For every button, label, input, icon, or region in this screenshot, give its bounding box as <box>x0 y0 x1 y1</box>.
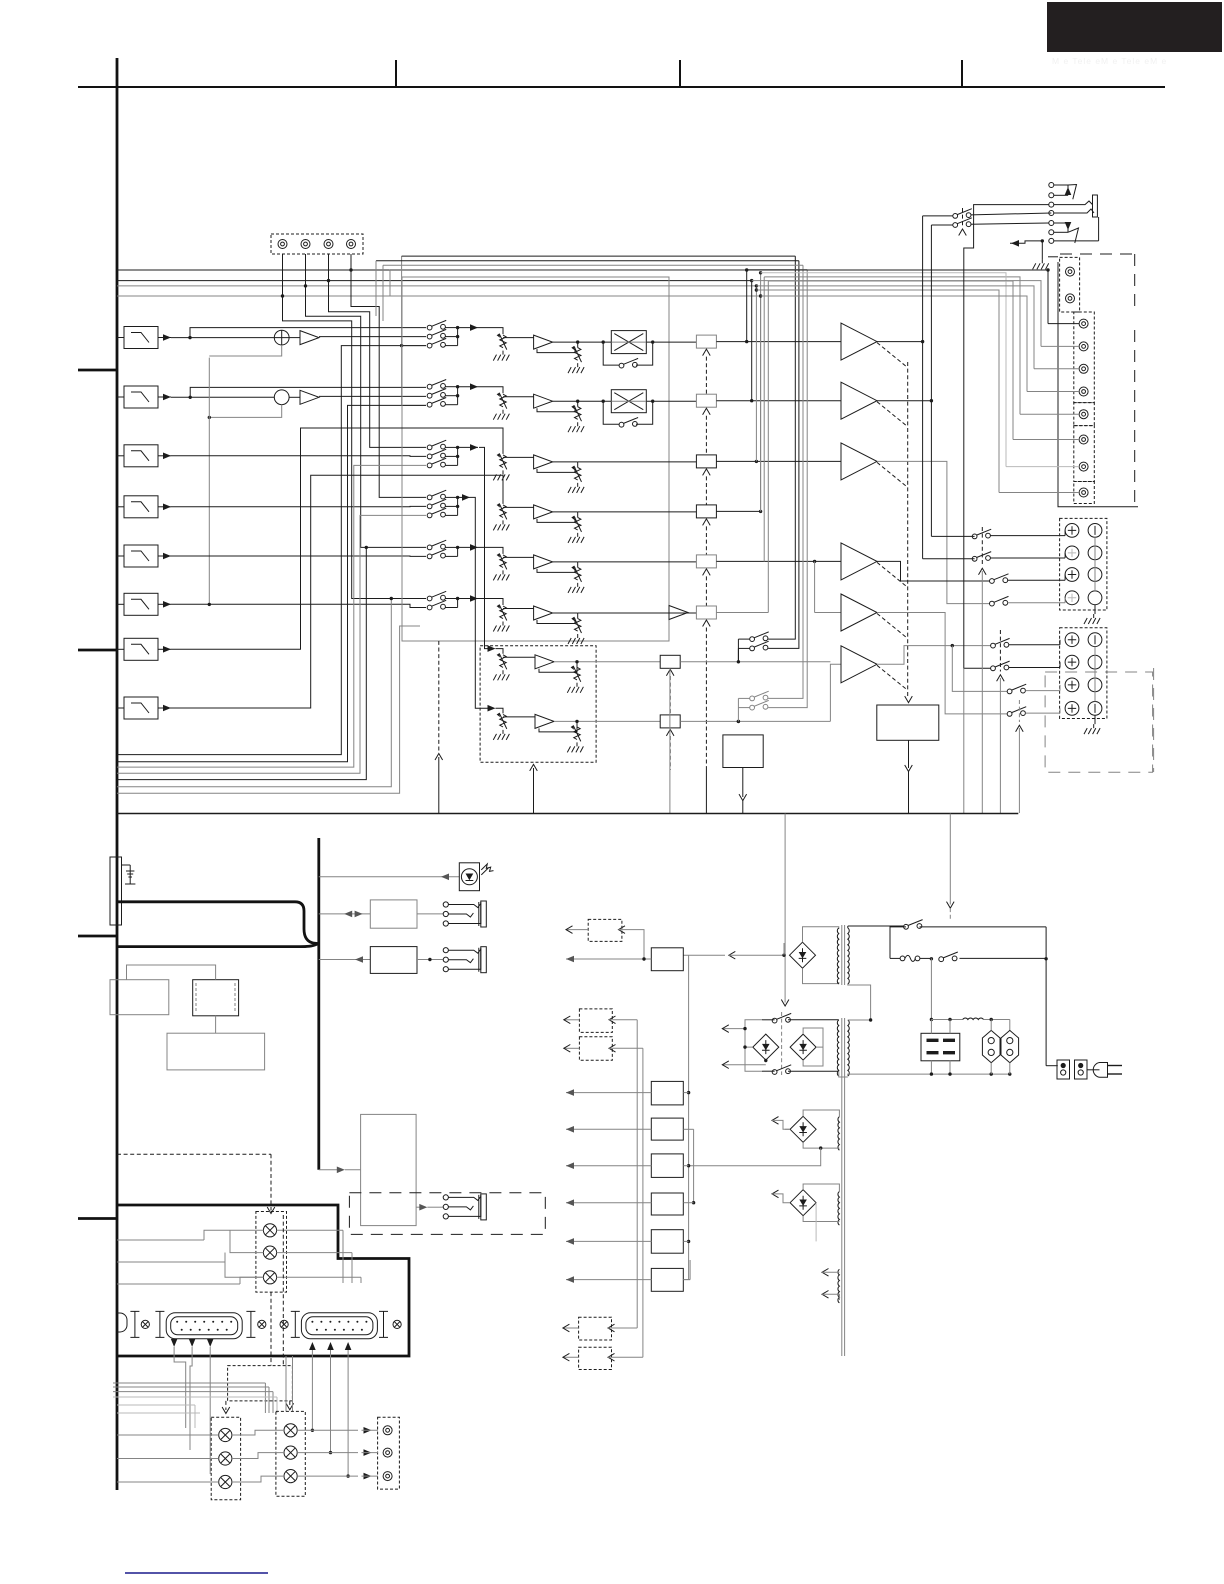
amp PA1 output wire <box>877 340 924 343</box>
jack J3 drop + staircase to SW3 <box>327 254 426 447</box>
volume op-amp U5 <box>534 555 553 569</box>
SB op-amp UB2 <box>535 714 554 728</box>
AC connector 1 (hex) <box>982 1030 1000 1062</box>
front sub box A <box>110 980 169 1015</box>
input bus drop 3 tail <box>755 286 757 462</box>
lamp feed wires from left <box>117 1230 263 1284</box>
AC plug cable <box>1087 1069 1100 1071</box>
SB op-amp 1 output <box>554 660 660 663</box>
op-amp U3 output wire <box>553 461 697 463</box>
psu bottom rail <box>848 1072 1012 1075</box>
op-amp U4 output wire <box>553 511 697 513</box>
top ruler line <box>78 86 1165 88</box>
input bus drop 4 tail <box>760 273 762 512</box>
bridge1 to transformer1 <box>803 927 839 984</box>
RCA input jack J2 <box>301 240 310 249</box>
psu bus vertical vA <box>963 668 965 813</box>
transformer T3 <box>838 1117 839 1151</box>
headphone switch dashed ctl <box>959 208 967 236</box>
preout jack Q2 <box>1079 342 1088 351</box>
transformer T1 primary <box>848 928 849 984</box>
speaker B row4 plus terminal <box>1065 702 1079 716</box>
filter F3 output arrow <box>158 453 171 460</box>
T3 top arrow <box>772 1117 790 1130</box>
aux3 input <box>609 1045 643 1053</box>
ctl riser to SB box <box>530 764 538 813</box>
speaker A row1 plus terminal <box>1065 524 1079 538</box>
psu drop switch line <box>947 814 955 922</box>
SB relay A drop <box>669 668 671 813</box>
relay control arrow 1 <box>703 349 711 356</box>
amp PA6 bridge dashed link <box>877 665 908 690</box>
left bus line b3 <box>117 465 426 767</box>
display unit box <box>370 900 417 928</box>
SB op-amp 2 output <box>554 720 660 723</box>
selector SW5 output arrow <box>458 544 478 551</box>
T2 relay switch bottom <box>762 1065 839 1076</box>
zone bus top line 3 <box>383 264 803 266</box>
hp ground wire <box>1033 241 1049 269</box>
hp tip lever 2 <box>1068 228 1079 243</box>
lamp B1 <box>284 1424 297 1437</box>
filter F4 output arrow <box>158 504 171 511</box>
crossfade matrix X2 <box>611 390 646 413</box>
low-pass filter F2 <box>117 386 158 408</box>
preout jack P1 <box>1066 267 1075 276</box>
transformer T4 <box>838 1192 839 1226</box>
preout jack group 2 (dashed) <box>1074 312 1095 403</box>
lamp ctl dashed tail <box>270 1292 272 1366</box>
hp contact4 lever <box>1054 209 1094 213</box>
aux feed vertical 2 <box>642 1048 644 1357</box>
regulator REG1 output <box>566 956 651 963</box>
wire F1 to S1 <box>171 336 274 339</box>
input selector switch group SW3 <box>427 440 446 468</box>
low-pass filter F6 <box>117 593 158 615</box>
T2 secondary bottom tail <box>839 1076 848 1077</box>
power amplifier PA6 <box>841 646 877 683</box>
regulator box REG4 <box>651 1154 683 1178</box>
feedback resistor R4 <box>568 512 584 543</box>
panel screw 1 <box>141 1320 149 1328</box>
op-amp U6 feedback loop <box>537 619 575 624</box>
hp sw2 wire to contact5 <box>971 223 1049 224</box>
panel lamp L1 <box>263 1224 276 1237</box>
bridge rectifier D2 <box>753 1034 779 1060</box>
selector SW6 output arrow <box>458 595 478 602</box>
selector SW3 output arrow <box>458 444 478 451</box>
front thick wire upper <box>117 902 319 944</box>
title block (solid black) <box>1047 2 1222 52</box>
preout bus line e <box>750 279 1041 347</box>
selector SW2 common junctions <box>445 385 459 405</box>
panel out jack 2 feed <box>297 1449 378 1456</box>
aux2 input <box>609 1016 637 1024</box>
surround-back buffer box (dashed) <box>480 646 596 762</box>
lamp top to B links <box>286 1356 293 1411</box>
panel screw 2 <box>258 1320 266 1328</box>
input selector switch group SW5 <box>427 540 446 559</box>
panel out jack 1 feed <box>297 1427 378 1434</box>
wire F6 to selector <box>171 604 426 607</box>
lamp B3 <box>284 1470 297 1483</box>
row5 wire to level control <box>478 547 503 554</box>
panel lamp L2 <box>263 1246 276 1259</box>
regulator REG3 output <box>566 1126 651 1133</box>
power sw drop <box>890 927 906 959</box>
transformer T1 secondary <box>837 928 838 984</box>
mute relay RL6 <box>696 606 716 619</box>
amp PA5 feed tap <box>815 561 841 612</box>
gray bus under panel <box>113 1383 277 1413</box>
ctl box out arrows <box>222 1401 293 1414</box>
lamp wires top <box>225 1230 263 1277</box>
T3 to rail <box>689 1148 821 1166</box>
bridge D3 frame <box>803 1028 823 1066</box>
footer underline (blue) <box>125 1572 268 1574</box>
mute relay RL4 <box>696 505 716 518</box>
speaker B ctl2 dashed <box>1016 700 1024 813</box>
speaker B row2 switch <box>991 661 1060 671</box>
relay control arrow 2 <box>703 408 711 415</box>
row4 output wire (pre-out only) <box>716 510 762 513</box>
amp bridge dashed tie bus <box>907 362 909 698</box>
panel aux dashed vertical <box>282 1215 284 1366</box>
op-amp U5 output wire <box>553 561 697 563</box>
power switch S2 <box>920 952 1046 962</box>
panel bracket 1 <box>130 1311 139 1337</box>
panel bracket 4 <box>291 1311 300 1337</box>
headphone jack contact 6 <box>1049 230 1054 235</box>
ruler tick 3 <box>961 60 963 87</box>
hp contact3 lever <box>1054 201 1093 205</box>
SB mute relay RLB2 <box>660 715 680 728</box>
row4 riser to top bus <box>760 296 762 511</box>
input bus wire 3 <box>117 285 756 287</box>
antenna element symbol <box>122 865 136 884</box>
relay control dashed bus seg 2 <box>705 416 707 455</box>
front box 3 input <box>319 956 371 963</box>
bypass switch SWX1 <box>619 358 638 368</box>
relay control arrow 3 <box>703 469 711 476</box>
SB wire to op-amp 1 <box>503 656 535 658</box>
front panel outline <box>117 1205 409 1356</box>
selector SW5 common junctions <box>445 546 459 557</box>
amp PA2 output wire <box>877 399 933 402</box>
bridge D2 frame <box>743 1020 762 1071</box>
RCA input jack J3 <box>324 240 333 249</box>
raw DC rail <box>687 955 690 1280</box>
F7 riser feed to row3 level control <box>171 428 503 649</box>
input bus drop 2 tail <box>751 281 753 401</box>
preout jack stub q2 <box>1041 345 1079 347</box>
row2 wire to level control <box>478 387 503 394</box>
front ctl dashed to panel lamps <box>117 1154 275 1213</box>
preout bus line g <box>755 284 1034 369</box>
panel screw 4 <box>393 1320 401 1328</box>
front jack 2 <box>443 947 486 973</box>
speaker A row1 switch <box>931 529 1065 539</box>
speaker A row2 plus terminal <box>1065 546 1079 560</box>
speaker B row2 feed <box>964 302 991 668</box>
bridge bus arrow into protector <box>905 696 913 703</box>
SB relay B output wire <box>680 720 830 723</box>
headphone feed switch 1 <box>923 209 972 559</box>
row2 direct tap riser <box>190 387 426 397</box>
level control VR3 ground <box>493 470 509 480</box>
speaker B row3 feed <box>952 646 1009 692</box>
relay control bus tail <box>705 628 707 814</box>
preout jack Q4 <box>1079 387 1088 396</box>
protector box <box>877 705 939 740</box>
row6 wire to level control <box>478 599 503 606</box>
jack J2 drop + staircase to SW5 <box>304 254 426 547</box>
preout bus line c <box>759 271 1006 467</box>
amp PA2 bridge dashed link <box>877 402 908 427</box>
row5 output wire to amp PA4 <box>716 560 841 563</box>
bypass rail to output <box>636 342 653 365</box>
amp PA3 bridge dashed link <box>877 462 908 487</box>
mute relay RL1 <box>696 335 716 348</box>
psu dashed aux box 2 <box>579 1009 612 1033</box>
wire F5 to selector <box>171 555 426 557</box>
front long-dash jack box <box>349 1193 545 1235</box>
relay control dashed bus seg 1 <box>705 357 707 395</box>
SB out pair2 risers <box>768 265 807 707</box>
amp PA6 output wire <box>877 644 991 664</box>
summing node S1 (circle-cross) <box>274 330 289 345</box>
feedback resistor R2 <box>568 401 584 432</box>
preout jack group 1 (dashed) <box>1060 257 1080 312</box>
speaker B row4 return terminal <box>1088 702 1102 716</box>
selector SW1 common junctions <box>445 326 459 346</box>
low-pass filter F5 <box>117 545 158 567</box>
preout jack stub q8 <box>999 492 1079 494</box>
wire F2 to S2 <box>171 396 274 399</box>
speaker A row4 switch <box>990 596 1066 606</box>
power amplifier PA1 <box>841 323 877 360</box>
low-pass filter F4 <box>117 496 158 518</box>
AC plug <box>1093 1063 1122 1078</box>
headphone jack contact 1 <box>1049 183 1054 188</box>
panel bracket 2 <box>155 1311 164 1337</box>
D-sub connector CN1 <box>166 1313 242 1339</box>
crossfade X2 bypass rail <box>603 401 620 424</box>
speaker A row4 plus terminal <box>1065 591 1079 605</box>
panel screw 3 <box>280 1320 288 1328</box>
hp tip lever 1 <box>1068 185 1077 200</box>
bridge rectifier D3 <box>790 1034 816 1060</box>
CN2 up arrows <box>309 1342 351 1356</box>
lamp A feeds <box>117 1435 219 1482</box>
speaker B row1 return terminal <box>1088 633 1102 647</box>
level control VR1 <box>497 334 507 350</box>
feedback resistor R5 <box>568 562 584 593</box>
hp zone arrow wire <box>1010 240 1042 247</box>
row3 output wire to amp <box>716 460 841 463</box>
wire A1 out to selector <box>319 336 426 338</box>
psu dashed aux box 1 <box>588 919 622 941</box>
ctl riser dashed to DSP <box>435 641 443 814</box>
svg-text:M e Tele eM e Tele eM e: M e Tele eM e Tele eM e <box>1052 56 1167 66</box>
panel out jack 3 feed <box>297 1473 378 1480</box>
psu down arrow main <box>781 940 789 1006</box>
psu left out 2 <box>722 1059 767 1069</box>
IR receiver box <box>459 863 479 891</box>
SB feedback resistor 2 <box>567 721 583 752</box>
speaker A row3 switch <box>990 574 1066 584</box>
panel lamp group top (dashed) <box>256 1212 287 1293</box>
selector SW3 common junctions <box>445 446 459 466</box>
row3 selected wire to SB buffer A <box>479 447 488 648</box>
S1 lower input wire <box>209 345 281 356</box>
row2 output wire to amp <box>716 399 841 402</box>
input selector switch group SW1 <box>427 320 446 348</box>
headphone jack contact 4 <box>1049 211 1054 216</box>
fuse drop <box>930 958 932 1019</box>
preout jack Q6 <box>1079 435 1088 444</box>
headphone jack contact 2 <box>1049 193 1054 198</box>
front A-B link wire <box>127 965 216 980</box>
bridge rectifier D4 <box>790 1116 816 1142</box>
aux1 output arrow <box>566 926 588 934</box>
transformer T2 secondary <box>837 1020 838 1076</box>
row5 riser to top bus <box>763 277 765 562</box>
level control VR1 ground <box>493 351 509 361</box>
CN2 wires below <box>311 1356 350 1478</box>
front sub box B (MCU) <box>193 980 239 1016</box>
crossfade matrix X1 <box>611 331 646 354</box>
selector SW4 common junctions <box>445 496 459 516</box>
SB op-amp 1 feedback loop <box>539 667 577 672</box>
op-amp U3 feedback loop <box>537 467 575 472</box>
level control VR2 <box>497 393 507 409</box>
AC plug connector pair <box>1057 1060 1087 1079</box>
T1 primary top wire <box>848 926 906 928</box>
aux3 output arrow <box>564 1045 580 1053</box>
preout jack Q1 <box>1079 319 1088 328</box>
rear panel outline dash right <box>1134 254 1136 507</box>
panel out jack PJ3 <box>383 1472 392 1481</box>
lamp block A (dashed) <box>211 1417 240 1499</box>
tape return vertical <box>400 256 426 405</box>
rear panel dash top <box>1060 253 1135 255</box>
relay control dashed bus seg 3 <box>705 476 707 505</box>
summing node S2 (circle) <box>274 390 289 405</box>
DSP/volume main box <box>402 277 669 641</box>
SB mute relay RLB1 <box>660 655 680 668</box>
preout jack Q5 <box>1079 410 1088 419</box>
op-amp U1 feedback loop <box>537 348 575 353</box>
level control VR2 ground <box>493 410 509 420</box>
speaker A row2 return terminal <box>1088 546 1102 560</box>
zone bus top line 4 <box>390 269 807 271</box>
left bus line b1 <box>117 346 426 755</box>
selector SW1 output arrow <box>458 324 478 331</box>
speaker B row2 plus terminal <box>1065 655 1079 669</box>
main power bus line <box>117 813 1018 815</box>
hp sleeve bar <box>1093 195 1098 217</box>
SB feedback resistor 1 <box>567 662 583 693</box>
standby box <box>723 735 763 768</box>
display jack wire <box>417 913 443 915</box>
wire F3 to selector <box>171 455 426 458</box>
headphone jack contact 7 <box>1049 238 1054 243</box>
amp PA4 output wire <box>877 561 992 581</box>
op-amp U4 feedback loop <box>537 517 575 522</box>
SB relay control dashed <box>666 669 674 770</box>
speaker B row3 return terminal <box>1088 678 1102 692</box>
front box3 jack wire <box>417 958 443 961</box>
fuse row wire <box>930 1018 1010 1031</box>
relay control arrow 5 <box>703 569 711 576</box>
SB wire to op-amp 2 <box>503 716 535 718</box>
feedback resistor R3 <box>568 462 584 493</box>
input bus wire 2 <box>117 280 752 282</box>
cassette mech tall box <box>361 1114 417 1225</box>
wire F4 to selector <box>171 505 426 507</box>
input bus drop 1 tail <box>746 270 748 342</box>
relay control dashed bus seg 5 <box>705 576 707 606</box>
IR receiver wire <box>319 874 460 881</box>
speaker A ctl dashed <box>979 527 987 813</box>
aux1 input <box>619 926 646 961</box>
mains fuse F1 <box>890 955 920 961</box>
left bus line b5 <box>117 546 368 780</box>
volume op-amp U3 <box>534 455 553 469</box>
mains switch S1 <box>904 920 923 930</box>
D-sub connector CN2 <box>301 1313 377 1339</box>
volume op-amp U6 <box>534 606 553 620</box>
lamp A-B links <box>232 1430 284 1482</box>
psu dashed switch link <box>781 1012 783 1075</box>
SB relay A output wire <box>680 660 830 663</box>
op-amp U2 output wire <box>553 400 612 403</box>
regulator REG6 output <box>566 1238 651 1245</box>
reg7 right link <box>683 1279 690 1281</box>
bypass rail to output <box>636 401 653 424</box>
headphone jack contact 5 <box>1049 221 1054 226</box>
selector SW2 output arrow <box>458 383 478 390</box>
audio input jack strip (dashed box) <box>271 234 363 254</box>
hp sw1 wire to jack <box>971 213 1051 215</box>
speaker B row3 plus terminal <box>1065 678 1079 692</box>
filter F1 output arrow <box>158 334 171 341</box>
preout bus line h <box>759 294 1027 391</box>
row6 riser to top bus <box>767 281 769 613</box>
mute relay RL2 <box>696 394 716 407</box>
front jack3 wire <box>416 1204 443 1211</box>
low-pass filter F8 <box>117 697 158 719</box>
rail stubs <box>683 1093 695 1280</box>
rear panel outline top <box>1058 262 1138 507</box>
crossfade X2 output <box>602 400 697 403</box>
row1 wire to level control <box>478 328 503 335</box>
preout jack Q7 <box>1079 462 1088 471</box>
input selector switch group SW6 <box>427 591 446 610</box>
preout bus line r5 <box>764 277 1020 414</box>
psu dashed aux box 5 <box>579 1347 612 1369</box>
filter F2 output arrow <box>158 394 171 401</box>
zone long-dash box <box>1045 672 1153 772</box>
power amplifier PA2 <box>841 382 877 419</box>
level control VR6 <box>497 605 507 621</box>
volume op-amp U2 <box>534 394 553 408</box>
level control VR4 <box>497 503 507 519</box>
low-pass filter F7 <box>117 638 158 660</box>
aux2 output arrow <box>564 1016 580 1024</box>
T3 wiring <box>803 1110 839 1150</box>
